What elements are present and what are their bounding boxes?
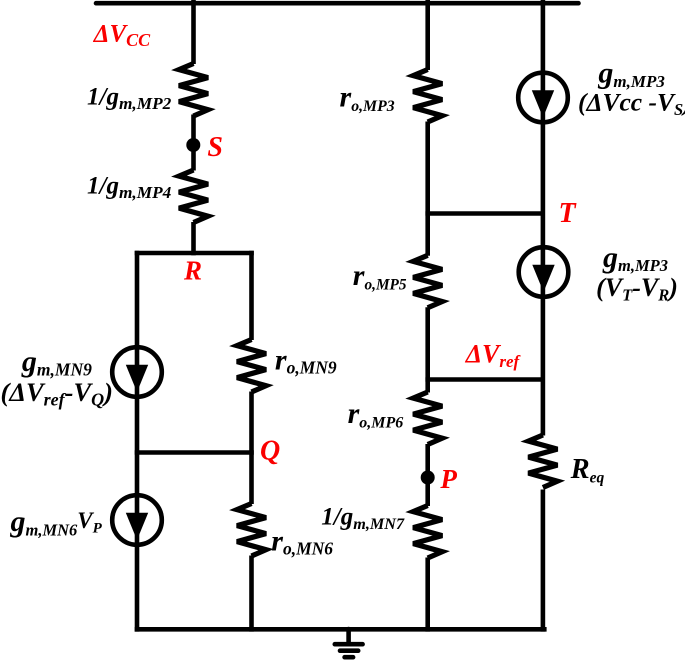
svg-text:(ΔVcc -VS): (ΔVcc -VS) [578, 88, 685, 119]
svg-text:S: S [207, 132, 223, 163]
svg-text:R: R [183, 256, 202, 286]
svg-text:P: P [439, 464, 457, 494]
svg-text:Q: Q [260, 436, 280, 467]
svg-text:T: T [559, 198, 578, 229]
